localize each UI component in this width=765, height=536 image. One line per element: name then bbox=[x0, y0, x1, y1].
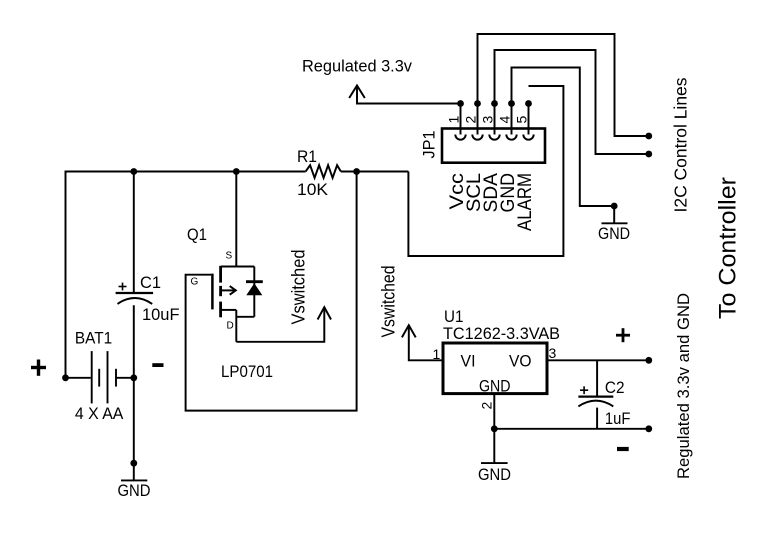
node: JP1 pin 1 dot bbox=[457, 100, 464, 107]
wire: U1 GND pin2 bbox=[493, 394, 495, 429]
svg-text:5: 5 bbox=[514, 116, 530, 124]
svg-text:VO: VO bbox=[509, 352, 532, 371]
svg-text:D: D bbox=[227, 321, 234, 332]
svg-text:3: 3 bbox=[549, 345, 557, 361]
svg-text:4 X AA: 4 X AA bbox=[75, 404, 124, 423]
wire: SCL from JP1 pin2 to I2C line bbox=[478, 34, 649, 136]
svg-text:S: S bbox=[226, 251, 233, 262]
node: junction dot battery right / C1 bbox=[130, 374, 137, 381]
arrow: Vswitched (Q1 drain) bbox=[318, 307, 331, 319]
svg-text:G: G bbox=[191, 277, 199, 288]
svg-text:4: 4 bbox=[497, 116, 513, 124]
output minus mark bbox=[617, 447, 629, 451]
node: I2C SCL end dot bbox=[645, 133, 652, 140]
svg-text:Vswitched: Vswitched bbox=[379, 266, 399, 338]
battery BAT1 bbox=[66, 351, 134, 403]
connector JP1 pin stubs bbox=[461, 104, 529, 135]
svg-text:2: 2 bbox=[479, 402, 495, 410]
node: JP1 GND dot bbox=[611, 203, 618, 210]
svg-text:Q1: Q1 bbox=[187, 225, 207, 244]
ground symbol (U1) bbox=[481, 429, 508, 463]
arrow: Regulated 3.3v supply bbox=[349, 86, 365, 99]
node: JP1 pin 2 dot bbox=[474, 100, 481, 107]
wire: C1 to battery minus node bbox=[133, 305, 135, 378]
svg-text:GND: GND bbox=[478, 465, 511, 484]
svg-text:LP0701: LP0701 bbox=[221, 362, 273, 381]
svg-text:R1: R1 bbox=[297, 147, 317, 166]
svg-text:GND: GND bbox=[118, 481, 151, 500]
node: bottom rail right dot bbox=[645, 425, 652, 432]
svg-text:1: 1 bbox=[446, 116, 462, 124]
wire: U1 VO pin3 output bbox=[547, 359, 649, 361]
svg-text:Regulated 3.3v: Regulated 3.3v bbox=[302, 57, 412, 76]
node: junction dot at GND attach bbox=[130, 460, 137, 467]
wire: rail right of R1 bbox=[341, 171, 409, 173]
svg-text:1uF: 1uF bbox=[605, 409, 631, 428]
capacitor C2 bbox=[578, 360, 613, 429]
arrow: Vswitched (U1 input) bbox=[402, 325, 416, 337]
node: GND rail junction dot bbox=[491, 425, 498, 432]
wire: C1 branch from rail bbox=[133, 172, 135, 294]
node: junction dot C1/rail bbox=[130, 168, 137, 175]
node: I2C SDA end dot bbox=[645, 151, 652, 158]
wire: SDA from JP1 pin3 to I2C line bbox=[495, 50, 649, 154]
wire: Regulated 3.3v to JP1 pin1 bbox=[357, 86, 461, 104]
svg-text:10K: 10K bbox=[297, 180, 329, 199]
svg-text:10uF: 10uF bbox=[142, 305, 180, 324]
node: junction dot battery left bbox=[62, 374, 69, 381]
connector JP1 body bbox=[442, 129, 545, 163]
svg-text:GND: GND bbox=[479, 377, 511, 396]
svg-text:ALARM: ALARM bbox=[515, 173, 536, 231]
ground symbol (JP1) bbox=[602, 206, 628, 223]
wire: Q1 gate lead bbox=[186, 172, 357, 411]
svg-text:C2: C2 bbox=[605, 378, 625, 397]
battery minus mark bbox=[152, 363, 163, 367]
wire: battery minus to GND bbox=[133, 378, 135, 463]
svg-text:To Controller: To Controller bbox=[715, 177, 742, 319]
battery plus mark bbox=[31, 360, 46, 376]
resistor R1 bbox=[306, 165, 341, 178]
svg-text:JP1: JP1 bbox=[420, 131, 439, 159]
wire: ALARM net from rail to JP1 pin5 bbox=[408, 86, 563, 256]
node: output dot bbox=[645, 357, 652, 364]
connector JP1 pin sockets bbox=[455, 135, 533, 140]
svg-text:3: 3 bbox=[480, 116, 496, 124]
capacitor C1 bbox=[116, 283, 154, 304]
svg-text:VI: VI bbox=[461, 352, 476, 371]
svg-text:Vswitched: Vswitched bbox=[289, 250, 309, 325]
svg-text:1: 1 bbox=[433, 346, 441, 362]
wire: left vertical battery+ rail bbox=[66, 172, 306, 378]
node: junction dot Q1 source/rail bbox=[233, 168, 240, 175]
svg-text:BAT1: BAT1 bbox=[75, 329, 112, 348]
transistor Q1 (P-channel MOSFET) bbox=[212, 266, 254, 342]
IC U1 body bbox=[443, 343, 547, 394]
wire: Q1 drain to Vswitched arrow bbox=[236, 307, 324, 342]
svg-text:2: 2 bbox=[463, 116, 479, 124]
svg-text:Regulated 3.3v and GND: Regulated 3.3v and GND bbox=[674, 293, 693, 479]
output plus mark bbox=[616, 328, 630, 342]
node: junction dot R1/gate loop bbox=[353, 168, 360, 175]
wire: Vswitched to U1 pin1 bbox=[409, 325, 443, 360]
node: JP1 pin 4 dot bbox=[508, 100, 515, 107]
node: JP1 pin 3 dot bbox=[491, 100, 498, 107]
svg-text:TC1262-3.3VAB: TC1262-3.3VAB bbox=[443, 324, 560, 343]
svg-text:GND: GND bbox=[598, 224, 630, 243]
ground symbol (battery) bbox=[121, 463, 147, 480]
svg-text:I2C Control Lines: I2C Control Lines bbox=[671, 77, 691, 212]
wire: bottom GND rail bbox=[494, 428, 649, 430]
diode: Q1 body diode bar bbox=[246, 280, 263, 283]
svg-text:C1: C1 bbox=[140, 273, 161, 292]
node: JP1 pin 5 dot bbox=[525, 100, 532, 107]
wire: Q1 source from rail bbox=[235, 172, 237, 267]
wire: GND from JP1 pin4 bbox=[512, 68, 615, 207]
diode: Q1 body diode triangle bbox=[246, 283, 262, 295]
